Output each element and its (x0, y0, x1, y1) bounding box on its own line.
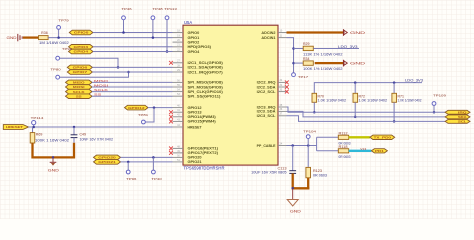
junction (122, 31, 125, 34)
wire R72 up (354, 83, 356, 94)
pin 54 SPI_CLK(GPIO10) (173, 91, 184, 93)
svg-text:I2C2_IRQ: I2C2_IRQ (257, 81, 276, 85)
svg-text:SPI_MISO(GPIO8): SPI_MISO(GPIO8) (188, 81, 223, 85)
no-connect X (169, 61, 173, 65)
svg-text:TPS65987DDHRSHR: TPS65987DDHRSHR (184, 166, 225, 171)
test point TP48 (151, 16, 155, 20)
capacitor C113 (289, 170, 296, 172)
port GPIO21 (94, 160, 121, 165)
wire to R34 (294, 62, 304, 64)
wire R34 to GND (thick) (315, 62, 343, 64)
wire R70 down (313, 102, 315, 112)
svg-text:TP96: TP96 (126, 177, 137, 181)
svg-text:TP40: TP40 (151, 177, 162, 181)
svg-text:I2C2_SCL: I2C2_SCL (257, 90, 277, 94)
svg-text:PP_CABLE: PP_CABLE (257, 144, 276, 148)
svg-text:GND: GND (350, 31, 366, 35)
pin 36 I2C3_SDA (278, 110, 287, 112)
wire I2C3_IRQ (287, 107, 446, 112)
test point TP96 (126, 170, 130, 174)
junction (153, 106, 156, 109)
svg-text:I2C1_SDA(GPIO6): I2C1_SDA(GPIO6) (188, 66, 223, 70)
wire TP80 to I2C1_IRQ (60, 72, 129, 77)
wire GPIO6 port to pin (92, 66, 172, 68)
pin 11 ADCIN1 (278, 37, 287, 39)
wire C49 lead (73, 127, 75, 135)
svg-text:GPIO4: GPIO4 (74, 50, 89, 54)
svg-text:MOSI: MOSI (73, 85, 85, 89)
wire TP40 up (152, 157, 154, 170)
svg-text:GND: GND (350, 61, 366, 65)
svg-text:GND: GND (290, 210, 302, 214)
svg-text:GPIO3: GPIO3 (74, 45, 89, 49)
svg-text:TP104: TP104 (303, 130, 316, 134)
svg-text:MISO: MISO (73, 81, 86, 85)
wire TP109 down (433, 105, 435, 112)
svg-text:R69: R69 (36, 132, 43, 136)
junction (291, 144, 294, 147)
svg-text:SPI_CLK(GPIO10): SPI_CLK(GPIO10) (188, 90, 223, 94)
svg-text:TP81: TP81 (138, 113, 149, 117)
port GPIO12 (125, 105, 149, 110)
svg-text:SS: SS (76, 94, 82, 98)
no-connect X (169, 110, 173, 114)
no-connect X (285, 85, 289, 89)
wire R36 to GPIO1 pin (48, 37, 172, 39)
pin 33 I2C2_SCL (278, 91, 287, 93)
wire TP79 down (58, 29, 60, 37)
wire port to SPI pin (92, 81, 173, 83)
svg-text:1M 1/16W 0402: 1M 1/16W 0402 (39, 41, 69, 45)
junction (152, 156, 155, 159)
wire TP114 stub (33, 125, 35, 127)
test point TP80 (56, 75, 60, 79)
svg-text:GPIO13: GPIO13 (188, 111, 202, 115)
junction (166, 50, 169, 53)
svg-text:ADCIN2: ADCIN2 (261, 31, 275, 35)
port GPIO3 (69, 45, 94, 50)
port MISO (66, 80, 93, 85)
svg-text:HRESET: HRESET (188, 125, 203, 129)
pin 34 I2C2_IRQ (278, 81, 287, 83)
port I2C_SDA (445, 115, 470, 119)
junction (292, 62, 295, 65)
svg-text:GPIO7: GPIO7 (73, 70, 88, 74)
pin 49 GPIO17(PEXT2) (173, 152, 184, 154)
test point TP113 (165, 16, 169, 20)
svg-text:HPD(GPIO3): HPD(GPIO3) (188, 45, 212, 49)
pin 44 HRESET (173, 126, 184, 128)
svg-text:I2C3_SCL: I2C3_SCL (257, 114, 277, 118)
svg-text:GND: GND (48, 169, 60, 173)
svg-text:GPIO0: GPIO0 (74, 31, 89, 35)
wire GPIO0 port to pin (93, 32, 173, 34)
junction (52, 156, 55, 159)
wire gnd horizontal (thick) (292, 187, 310, 189)
no-connect X (169, 120, 173, 124)
svg-text:HRESET: HRESET (6, 125, 23, 129)
svg-text:GPIO20: GPIO20 (188, 156, 202, 160)
svg-text:TP109: TP109 (433, 94, 446, 98)
pin 24 PP_CABLE (278, 145, 287, 147)
port MOSI (66, 85, 93, 90)
wire to R29 (294, 48, 304, 50)
svg-text:SCLK: SCLK (73, 90, 86, 94)
wire R123 lead (307, 146, 309, 168)
svg-text:TP114: TP114 (31, 116, 44, 120)
capacitor C49 (71, 134, 78, 136)
junction (57, 36, 60, 39)
wire C113 to GND (thick) (292, 173, 294, 189)
junction (393, 120, 396, 123)
wire port to SPI pin (92, 86, 173, 88)
svg-text:GPIO1: GPIO1 (188, 36, 200, 40)
svg-text:R34: R34 (303, 57, 310, 61)
wire ADCIN1 down (287, 38, 294, 73)
pin 10 ADCIN2 (278, 32, 287, 34)
resistor R36 (39, 36, 49, 40)
test point TP109 (432, 102, 436, 106)
wire TP46 down (123, 20, 125, 33)
no-connect X (285, 90, 289, 94)
port HRESET (3, 125, 28, 130)
junction (354, 116, 357, 119)
svg-text:R118: R118 (339, 145, 348, 149)
wire R72 down (354, 102, 356, 117)
wire R123 to GND (thick) (307, 178, 309, 190)
wire R112 to port (thick yellow) (349, 136, 370, 138)
wire PP_CABLE (287, 145, 317, 147)
wire GPIO21 port to pin (121, 161, 173, 163)
pin 40 GPIO12 (173, 107, 184, 109)
wire R71 down (393, 102, 395, 121)
pin 55 SPI_MOSI(GPIO9) (173, 86, 184, 88)
svg-text:GPIO15(PWM4): GPIO15(PWM4) (188, 120, 216, 124)
pin 48 GPIO16(PEXT1) (173, 147, 184, 149)
pin 27 I2C1_SCL(GPIO5) (173, 62, 184, 64)
junction (117, 66, 120, 69)
resistor R118 (338, 149, 348, 153)
wire GPIO4 port to pin (93, 51, 173, 53)
wire GPIO7 port to pin (92, 71, 172, 73)
pin 28 I2C1_SDA(GPIO6) (173, 66, 184, 68)
pin 35 I2C3_IRQ (278, 106, 287, 108)
junction (354, 81, 357, 84)
port SS (66, 94, 93, 99)
svg-text:LDO_3V3: LDO_3V3 (338, 45, 358, 49)
svg-text:GPIO14(PWM3): GPIO14(PWM3) (188, 115, 216, 119)
svg-text:LDO_3V3: LDO_3V3 (405, 78, 423, 82)
wire GND to R36 (thick) (23, 36, 38, 38)
svg-text:U5A: U5A (184, 20, 192, 25)
svg-text:GPIO6: GPIO6 (73, 66, 88, 70)
port GPIO4 (69, 49, 94, 54)
junction (32, 126, 35, 129)
svg-text:10NF 16V X7R 0402: 10NF 16V X7R 0402 (80, 138, 114, 142)
ground (52, 157, 54, 162)
wire R69 lead (32, 127, 34, 133)
svg-text:SDA: SDA (458, 115, 467, 119)
no-connect X (285, 81, 289, 85)
wire to R112 (317, 136, 339, 138)
svg-text:GPIO20: GPIO20 (98, 156, 116, 160)
pin 42 GPIO14(PWM3) (173, 116, 184, 118)
resistor R34 (303, 61, 313, 65)
svg-text:GPIO17(PEXT2): GPIO17(PEXT2) (188, 151, 219, 155)
svg-text:1.0K 1/16W 0402: 1.0K 1/16W 0402 (359, 98, 388, 102)
wire ADCIN2 to GND (thick) (287, 31, 344, 33)
pin 20 GPIO2 (173, 41, 184, 43)
wire TP96 up (127, 162, 129, 170)
svg-text:R36: R36 (41, 31, 48, 35)
svg-text:GPIO2: GPIO2 (188, 40, 200, 44)
wire I2C3_SDA (287, 111, 446, 117)
ground (292, 188, 294, 199)
svg-text:GPIO0: GPIO0 (188, 31, 200, 35)
svg-text:100K 1% 1/16W 0402: 100K 1% 1/16W 0402 (303, 67, 343, 71)
power port GND (ADCIN2) (343, 29, 345, 36)
resistor R69 (30, 133, 35, 143)
pin 51 GPIO21 (173, 161, 184, 163)
svg-text:PD1: PD1 (375, 149, 384, 153)
test point TP104 (306, 135, 310, 139)
svg-text:GPIO12: GPIO12 (188, 106, 202, 110)
svg-text:I2C2_SDA: I2C2_SDA (257, 85, 276, 89)
junction (307, 144, 310, 147)
svg-text:R29: R29 (303, 42, 310, 46)
IC U5A TPS65987DDHRSHR (183, 25, 278, 165)
svg-text:ADCIN1: ADCIN1 (261, 36, 275, 40)
test point TP46 (122, 16, 126, 20)
svg-text:TX_PD0: TX_PD0 (374, 135, 392, 139)
wire I2C3_SCL (287, 116, 446, 122)
wire to R118 (317, 150, 339, 152)
junction (127, 161, 130, 164)
port GPIO7 (67, 70, 92, 75)
pin 56 SPI_MISO(GPIO8) (173, 81, 184, 83)
svg-text:10UF 16V X5R 0805: 10UF 16V X5R 0805 (251, 171, 287, 175)
svg-text:GPIO12: GPIO12 (128, 106, 145, 110)
wire C113 lead (292, 146, 294, 171)
wire R29 to LDO_3V3 (313, 48, 359, 50)
wire TP104 down (307, 139, 309, 146)
wire GPIO20 port to pin (121, 156, 173, 158)
svg-text:GND: GND (7, 36, 18, 40)
svg-text:GPIO4: GPIO4 (188, 50, 200, 54)
no-connect X (169, 115, 173, 119)
pin 37 I2C3_SCL (278, 115, 287, 117)
junction (393, 81, 396, 84)
wire split vertical (316, 137, 318, 151)
wire port to SPI pin (92, 91, 173, 93)
svg-text:TP17: TP17 (298, 75, 309, 79)
svg-text:GPIO21: GPIO21 (98, 160, 116, 164)
svg-text:TP46: TP46 (121, 7, 132, 11)
pin 50 GPIO20 (173, 156, 184, 158)
wire TP113 down (166, 20, 168, 52)
junction (152, 36, 155, 39)
pin 18 GPIO0 (173, 32, 184, 34)
svg-text:GPIO16(PEXT1): GPIO16(PEXT1) (188, 147, 219, 151)
wire R71 up (393, 83, 395, 94)
junction (291, 187, 294, 190)
resistor R29 (303, 46, 313, 50)
wire TP92 to I2C1_SDA (60, 58, 118, 67)
pin 53 SPI_SS(GPIO11) (173, 95, 184, 97)
svg-text:SCL: SCL (458, 120, 467, 124)
junction (292, 47, 295, 50)
svg-text:TP113: TP113 (164, 7, 177, 11)
pin 32 I2C2_SDA (278, 86, 287, 88)
pin 22 GPIO4 (173, 51, 184, 53)
svg-text:TP92: TP92 (62, 47, 73, 51)
svg-text:I2C1_IRQ(GPIO7): I2C1_IRQ(GPIO7) (188, 70, 223, 74)
svg-text:113K 1% 1/16W 0402: 113K 1% 1/16W 0402 (303, 52, 343, 56)
wire R118 to port (thick cyan) (349, 150, 372, 152)
test point TP79 (57, 26, 61, 30)
wire LDO_3V3 rail (314, 83, 422, 94)
svg-text:IRQ: IRQ (458, 110, 468, 114)
svg-text:1.0K 1/16W 0402: 1.0K 1/16W 0402 (398, 98, 422, 102)
svg-text:R112: R112 (339, 131, 348, 135)
test point TP17 (292, 73, 296, 77)
junction (73, 126, 76, 129)
wire TP48 down (152, 20, 154, 38)
svg-text:V13: V13 (360, 147, 367, 151)
port SCLK (66, 89, 93, 94)
no-connect X (169, 147, 173, 151)
test point TP81 (142, 120, 146, 124)
power port GND (R34) (343, 60, 345, 67)
svg-text:SPI_SS(GPIO11): SPI_SS(GPIO11) (188, 95, 221, 99)
port GPIO20 (94, 155, 121, 160)
port I2C_SCL (445, 119, 470, 123)
svg-text:I2C3_IRQ: I2C3_IRQ (257, 105, 276, 109)
svg-text:TP80: TP80 (50, 67, 61, 71)
port GPIO6 (67, 65, 92, 70)
test point TP114 (32, 121, 36, 125)
svg-text:I2C3_SDA: I2C3_SDA (257, 110, 276, 114)
pin 21 HPD(GPIO3) (173, 46, 184, 48)
junction (433, 111, 436, 114)
junction (127, 71, 130, 74)
port I2C_IRQ (445, 110, 470, 114)
svg-text:100K 1 16W 0402: 100K 1 16W 0402 (35, 138, 69, 142)
test point TP92 (56, 56, 60, 60)
wire ground U (thick) (33, 143, 75, 158)
test point TP40 (152, 170, 156, 174)
pin 41 GPIO13 (173, 111, 184, 113)
resistor R70 (312, 93, 317, 102)
resistor R112 (338, 135, 348, 139)
wire port to SPI pin (92, 95, 173, 97)
wire GPIO3 port to pin (93, 46, 173, 48)
resistor R123 (306, 167, 311, 177)
no-connect X (169, 151, 173, 155)
svg-text:I2C1_SCL(GPIO5): I2C1_SCL(GPIO5) (188, 61, 223, 65)
pin 19 GPIO1 (173, 37, 184, 39)
svg-text:R123: R123 (313, 169, 322, 173)
resistor R72 (353, 93, 358, 102)
junction (313, 111, 316, 114)
pin 29 I2C1_IRQ(GPIO7) (173, 71, 184, 73)
svg-text:SPI_MOSI(GPIO9): SPI_MOSI(GPIO9) (188, 85, 223, 89)
wire to TP81 (145, 108, 154, 122)
port TX_PD0 (370, 135, 395, 139)
port PD1 (371, 149, 387, 153)
svg-text:TP48: TP48 (152, 7, 163, 11)
svg-text:1.0K 1/16W 0402: 1.0K 1/16W 0402 (318, 98, 347, 102)
svg-text:C49: C49 (80, 133, 87, 137)
resistor R71 (392, 93, 397, 102)
wire GPIO12 port to pin (148, 107, 173, 109)
wire HRESET to pin (29, 126, 173, 128)
pin 43 GPIO15(PWM4) (173, 120, 184, 122)
svg-text:TP79: TP79 (58, 19, 69, 23)
port GPIO0 (69, 30, 93, 35)
svg-text:0R 0603: 0R 0603 (339, 155, 351, 159)
svg-text:0R 0603: 0R 0603 (313, 173, 327, 177)
svg-text:GPIO21: GPIO21 (188, 160, 202, 164)
